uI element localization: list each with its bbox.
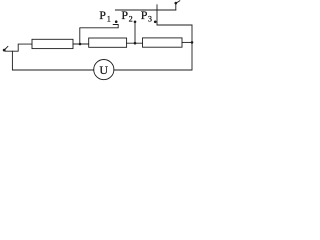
wire R1 to R2 [73, 43, 89, 45]
wire P3 node to right rail [157, 24, 192, 26]
switch K lever [176, 1, 180, 3]
resistor R3 (right box) [143, 38, 183, 47]
wire R3 to right rail [182, 41, 192, 43]
wire riser from junction M1 and bus to wiper [80, 25, 118, 45]
contact dot P2 [134, 21, 137, 24]
left terminal arrow dot [3, 49, 6, 52]
resistor R2 (middle box) [89, 38, 127, 47]
wire switch branch top [175, 3, 177, 10]
wire left node to R1 [5, 44, 32, 51]
svg-text:P1: P1 [99, 8, 110, 23]
wire R2 to R3 [127, 42, 143, 44]
contact dot P1 [115, 20, 118, 23]
switch K contact dot [175, 2, 178, 5]
junction M2 [134, 42, 137, 45]
wire top bus A [115, 9, 175, 11]
wire riser from junction M2 to contact P2 [134, 22, 136, 43]
contact dot P3 [154, 21, 157, 24]
wire right rail [114, 25, 192, 70]
wire switch drop with contact P3 [156, 5, 158, 25]
source U circle [94, 60, 114, 80]
svg-text:U: U [99, 63, 108, 77]
junction right rail [191, 41, 194, 44]
left terminal arrow shaft [5, 46, 8, 49]
resistor R1 (left box) [32, 39, 73, 48]
wire left drop to bottom [12, 51, 93, 70]
junction M1 [79, 43, 82, 46]
